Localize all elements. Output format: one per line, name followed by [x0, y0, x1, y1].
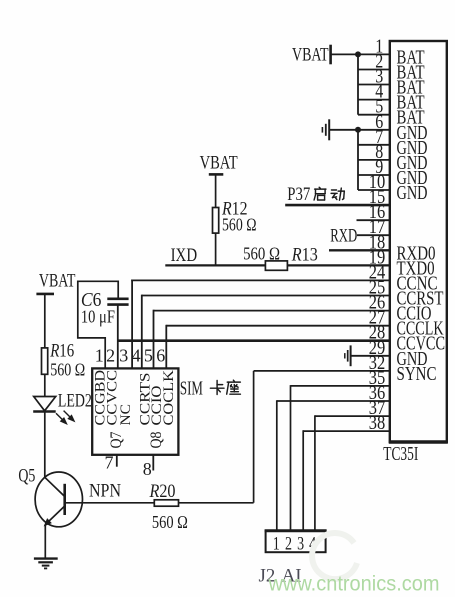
svg-text:NC: NC	[118, 404, 134, 426]
svg-text:COCLK: COCLK	[161, 369, 177, 425]
svg-text:NPN: NPN	[89, 482, 121, 502]
wire pin 29	[351, 355, 390, 357]
svg-text:GND: GND	[397, 183, 428, 204]
svg-text:2: 2	[106, 345, 115, 365]
svg-text:4: 4	[132, 345, 141, 365]
power VBAT bar	[209, 173, 224, 176]
wire pin 4	[358, 99, 390, 101]
svg-text:VBAT: VBAT	[292, 45, 329, 66]
transistor Q5 emitter with arrow	[48, 506, 65, 523]
svg-text:560 Ω: 560 Ω	[222, 215, 257, 235]
wire ground to bus	[329, 129, 358, 131]
resistor R16 body	[42, 348, 48, 374]
svg-text:7: 7	[105, 453, 114, 473]
power VBAT bar	[36, 293, 54, 296]
svg-text:8: 8	[143, 459, 152, 479]
svg-text:VBAT: VBAT	[200, 153, 238, 174]
svg-text:Q7: Q7	[108, 431, 125, 448]
wire VBAT to R16	[44, 295, 46, 348]
wire R16 to LED2	[44, 374, 46, 396]
svg-text:560 Ω: 560 Ω	[152, 512, 188, 532]
svg-text:SIM: SIM	[180, 378, 203, 400]
wire pin37 down to J2 pin4	[314, 415, 316, 530]
wire GND bus vertical	[357, 130, 359, 190]
wire pin 24	[131, 279, 390, 281]
wire pin 38	[303, 430, 390, 432]
wire R12 to IXD net	[215, 233, 217, 265]
svg-text:10 μF: 10 μF	[81, 306, 115, 326]
wire SYNC vertical riser	[253, 371, 255, 503]
wire pin 1	[358, 53, 390, 55]
svg-text:P37: P37	[287, 184, 310, 205]
wire pin 37	[315, 415, 390, 417]
wire VBAT to R12	[215, 176, 217, 208]
svg-text:3: 3	[119, 345, 128, 365]
IC U1 TC35I body	[390, 41, 447, 442]
svg-text:1: 1	[273, 534, 280, 555]
wire pin 28	[118, 339, 390, 342]
svg-text:Q8: Q8	[148, 431, 165, 448]
wire pin 8	[358, 159, 390, 161]
resistor R12 body	[213, 208, 219, 234]
wire pin 26	[154, 310, 390, 312]
power VBAT bar symbol	[329, 45, 332, 65]
wire VBAT to bus	[331, 53, 358, 55]
wire pin 16	[357, 219, 390, 221]
resistor R13 body	[265, 261, 287, 270]
wire pin38 down to J2 pin3	[302, 430, 304, 530]
svg-text:6: 6	[156, 345, 165, 365]
wire pin 36	[277, 400, 390, 402]
wire pin 19	[165, 264, 389, 266]
wire pin 9	[358, 174, 390, 176]
wire pin 10	[358, 189, 390, 191]
wire pin 25	[142, 295, 390, 297]
wire pin 2	[358, 69, 390, 71]
svg-text:SYNC: SYNC	[397, 364, 437, 385]
connector SIM holder body	[92, 368, 178, 454]
wire pin 15	[285, 204, 390, 207]
wire C6 bottom lead / SIM pin2	[117, 305, 119, 369]
connector J2 body	[266, 531, 326, 553]
wire pin 35	[291, 385, 390, 387]
svg-text:www.cntronics.com: www.cntronics.com	[268, 572, 440, 596]
wire pin 27	[166, 325, 389, 327]
wire pin 17	[357, 234, 390, 236]
svg-text:1: 1	[95, 345, 104, 365]
wire pin27 corner down to SIM pin6	[165, 325, 167, 369]
svg-text:RXD: RXD	[330, 225, 357, 246]
wire pin24 corner down to SIM pin3	[131, 280, 133, 369]
wire R20 to SYNC riser	[179, 502, 254, 504]
resistor R20 body	[154, 500, 178, 506]
wire pin25 corner down to SIM pin4	[141, 295, 143, 369]
ground (Q5 emitter)	[34, 557, 58, 559]
junction dot node GND bus	[355, 127, 361, 133]
svg-text:TC35I: TC35I	[383, 443, 418, 465]
transistor Q5 base bar	[63, 484, 66, 515]
svg-text:5: 5	[144, 345, 153, 365]
svg-text:Q5: Q5	[18, 465, 35, 486]
wire Q5 base to R20	[65, 502, 155, 504]
wire pin36 down to J2 pin1	[276, 400, 278, 531]
capacitor C6 plates	[107, 297, 128, 300]
wire pin 18	[329, 249, 390, 251]
wire pin 6	[358, 129, 390, 131]
wire C6 top route to SIM pin1	[78, 281, 118, 368]
transistor Q5 circle	[35, 472, 82, 527]
wire BAT bus vertical	[357, 54, 359, 114]
wire pin 32	[254, 370, 390, 372]
svg-text:38: 38	[369, 412, 386, 434]
node label qidong (Chinese)	[314, 187, 326, 200]
svg-text:LED2: LED2	[58, 391, 92, 411]
ground symbol (pin 6 rail)	[328, 119, 330, 140]
SIM pin 8 stub	[152, 455, 154, 471]
svg-text:IXD: IXD	[171, 245, 198, 266]
ground symbol (pin 29)	[350, 345, 352, 366]
wire pin 5	[358, 114, 390, 116]
svg-text:560 Ω: 560 Ω	[50, 360, 85, 380]
transistor Q5 collector	[45, 477, 65, 496]
wire pin26 corner down to SIM pin5	[153, 310, 155, 369]
wire emitter to ground	[44, 525, 46, 559]
wire LED2 to Q5	[44, 412, 46, 479]
LED2 light arrows	[56, 411, 74, 424]
watermark logo swirl	[312, 533, 357, 579]
SIM pin 7 stub	[116, 455, 118, 467]
svg-text:2: 2	[285, 534, 292, 555]
wire pin 7	[358, 144, 390, 146]
svg-text:3: 3	[297, 534, 304, 555]
svg-text:VBAT: VBAT	[39, 270, 76, 291]
junction dot node VBAT bus	[355, 51, 361, 57]
wire pin 3	[358, 84, 390, 86]
svg-text:R13: R13	[291, 245, 318, 266]
svg-text:R20: R20	[149, 481, 176, 502]
LED D2 (LED2) symbol	[34, 397, 56, 411]
wire pin35 down to J2 pin2	[290, 385, 292, 531]
